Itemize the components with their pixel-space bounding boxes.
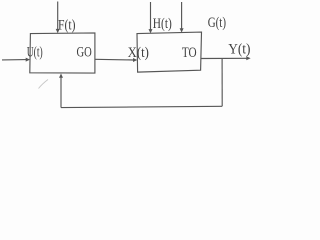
svg-text:Y(t): Y(t)	[228, 42, 250, 58]
svg-text:F(t): F(t)	[58, 17, 76, 33]
svg-text:U(t): U(t)	[27, 45, 43, 61]
arrowhead feedback up into GO bottom	[59, 74, 63, 78]
arrowhead into GO left	[26, 58, 30, 62]
svg-text:GO: GO	[77, 44, 92, 60]
svg-text:H(t): H(t)	[153, 16, 172, 32]
arrowhead F(t) down	[56, 29, 60, 33]
block GO (first system box)	[30, 33, 95, 73]
wire F(t) vertical into GO	[57, 2, 59, 30]
wire feedback down from output	[221, 58, 223, 106]
block TO (second system box)	[137, 32, 202, 72]
svg-text:X(t): X(t)	[128, 45, 149, 61]
arrowhead second input down	[180, 28, 184, 32]
arrowhead H(t) down	[149, 29, 153, 33]
wire feedback bottom horizontal	[61, 106, 222, 107]
arrowhead into TO left	[133, 58, 137, 62]
wire feedback up into GO bottom	[60, 77, 62, 108]
wire G(t) vertical into TO	[181, 2, 183, 29]
wire H(t) vertical into TO	[150, 2, 152, 30]
wire X(t) connection GO to TO	[95, 58, 134, 61]
svg-text:G(t): G(t)	[208, 15, 226, 31]
wire Y(t) output	[201, 57, 247, 59]
svg-text:TO: TO	[182, 45, 197, 61]
scan scratch artifact	[39, 80, 49, 89]
wire U(t) input	[2, 59, 27, 61]
arrowhead Y(t) output tip	[246, 56, 250, 60]
